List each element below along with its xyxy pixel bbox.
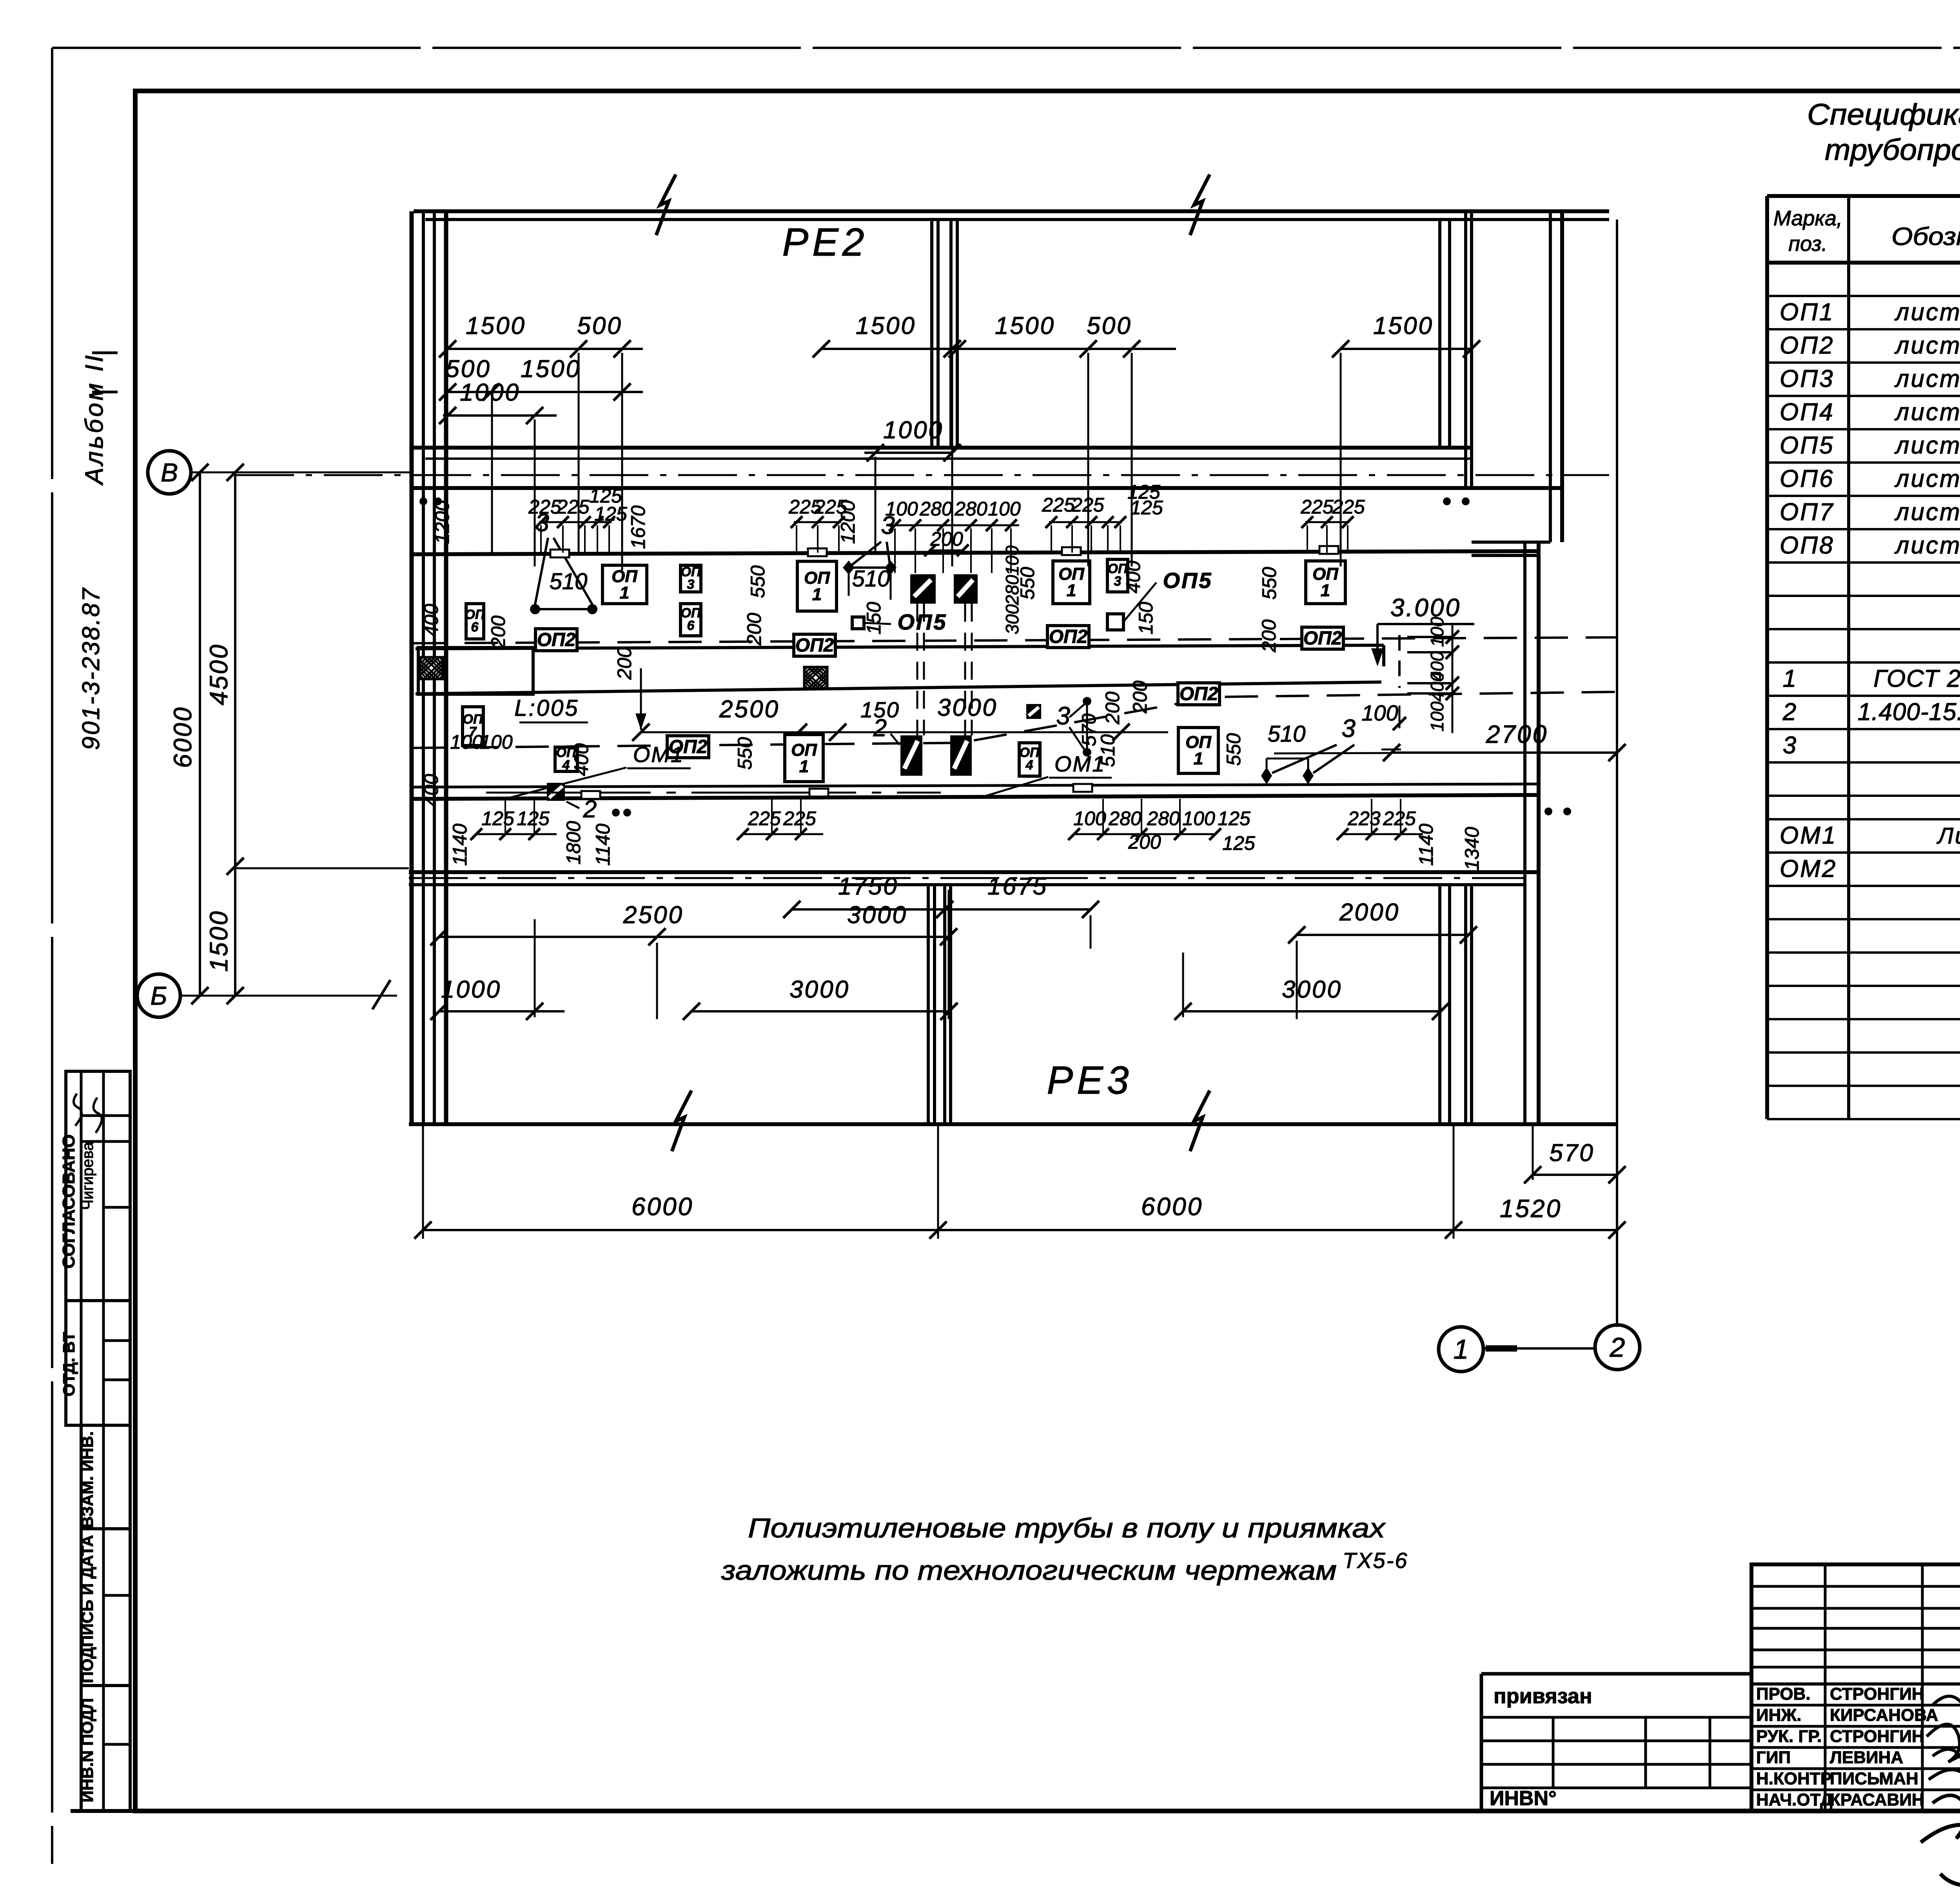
РЕ3 dim 3000 #2: [1174, 976, 1449, 1020]
svg-text:570: 570: [1078, 713, 1100, 746]
svg-text:150: 150: [863, 602, 885, 635]
svg-text:2: 2: [1782, 699, 1796, 726]
svg-text:100: 100: [1073, 807, 1106, 829]
dim 1500 middle: [813, 312, 961, 357]
centre line lower row: [486, 792, 941, 794]
svg-text:НАЧ.ОТД: НАЧ.ОТД: [1756, 1790, 1833, 1809]
svg-text:200: 200: [743, 613, 765, 646]
svg-text:3000: 3000: [937, 694, 998, 721]
dim row 1500/500 left: [439, 312, 643, 357]
svg-text:225: 225: [528, 496, 561, 518]
svg-text:КИРСАНОВА: КИРСАНОВА: [1830, 1706, 1938, 1725]
svg-text:3000: 3000: [789, 976, 850, 1003]
svg-text:1000: 1000: [441, 976, 501, 1003]
svg-text:ИНВ.N ПОДЛ: ИНВ.N ПОДЛ: [78, 1698, 96, 1802]
tank РЕ3 bottom break line: [409, 1122, 1617, 1126]
svg-text:100: 100: [1427, 617, 1447, 647]
svg-text:ГОСТ 24379.1-80: ГОСТ 24379.1-80: [1873, 665, 1960, 692]
dim 1500/500 middle-right: [949, 312, 1176, 357]
svg-text:РЕ3: РЕ3: [1047, 1058, 1132, 1102]
svg-text:Б: Б: [151, 981, 167, 1010]
ОМ1 labels: [510, 742, 1112, 798]
pipe dashed verticals between squares: [917, 604, 972, 735]
svg-text:225: 225: [1332, 496, 1365, 518]
svg-text:2000: 2000: [1339, 899, 1400, 926]
svg-text:3000: 3000: [847, 902, 907, 929]
svg-text:225: 225: [1300, 496, 1334, 518]
spec row ОП3: [1780, 365, 1960, 396]
РЕ3 dim 1000: [430, 976, 564, 1020]
tank РЕ3 right wall: [1440, 885, 1472, 1124]
channel: [416, 645, 1384, 694]
svg-text:Чигирева: Чигирева: [79, 1142, 96, 1210]
dim strip above corridor: [431, 481, 1365, 634]
svg-text:ОП2: ОП2: [537, 630, 576, 650]
axis circle 2: [1595, 1325, 1640, 1370]
tank РЕ3 middle divider: [928, 885, 951, 1124]
plan right outer walls: [1472, 211, 1562, 1124]
svg-text:125: 125: [517, 807, 550, 829]
channel left box with hatch: [418, 648, 533, 694]
support ОП3 upper #7: [1107, 559, 1128, 592]
svg-text:ПИСЬМАН: ПИСЬМАН: [1830, 1769, 1918, 1788]
dim row 1000 left: [439, 379, 557, 424]
dim 1500 right: [1332, 312, 1480, 357]
corridor top line: [414, 551, 1539, 554]
spec row ОП4: [1780, 399, 1960, 430]
svg-text:ОП2: ОП2: [795, 635, 834, 656]
far right vertical line: [1616, 220, 1618, 1327]
svg-text:570: 570: [1549, 1140, 1594, 1167]
svg-text:Н.КОНТР: Н.КОНТР: [1756, 1769, 1832, 1788]
tank РЕ2 top break wall: [414, 211, 1609, 220]
svg-text:280: 280: [1002, 575, 1022, 605]
svg-text:4: 4: [1025, 758, 1033, 773]
spec table grid: [1767, 196, 1960, 1119]
white gap rects on lines: [550, 546, 1338, 799]
svg-text:1140: 1140: [1415, 824, 1437, 866]
svg-text:400: 400: [420, 604, 442, 637]
svg-text:550: 550: [734, 737, 756, 770]
dim 570: [1524, 1124, 1626, 1183]
tank РЕ2 bottom wall: [414, 448, 1562, 488]
svg-text:ИНЖ.: ИНЖ.: [1756, 1706, 1801, 1725]
svg-text:лист КЖ 15: лист КЖ 15: [1895, 365, 1960, 392]
svg-text:2: 2: [873, 715, 887, 742]
svg-text:1500: 1500: [466, 312, 526, 339]
svg-text:РЕ2: РЕ2: [782, 220, 868, 264]
svg-text:Полиэтиленовые трубы в полу и: Полиэтиленовые трубы в полу и приямках: [748, 1513, 1386, 1543]
svg-text:225: 225: [783, 807, 816, 829]
side block СОГЛАСОВАНО: [59, 1071, 130, 1301]
title block main grid: [1751, 1564, 1960, 1811]
svg-text:лист КЖ 15: лист КЖ 15: [1895, 465, 1960, 492]
svg-text:ОП2: ОП2: [1180, 684, 1218, 704]
svg-text:400: 400: [1427, 671, 1447, 702]
svg-text:400: 400: [570, 743, 592, 776]
svg-text:ОМ1: ОМ1: [1780, 822, 1837, 849]
axis circle 1: [1439, 1327, 1483, 1372]
black square pair upper: [910, 574, 978, 604]
svg-text:1340: 1340: [1461, 827, 1483, 870]
svg-text:L:005: L:005: [514, 695, 579, 721]
support ОП4 lower #2: [555, 745, 577, 773]
svg-text:3000: 3000: [1282, 976, 1342, 1003]
svg-text:280: 280: [1108, 807, 1142, 829]
svg-text:400: 400: [420, 774, 442, 807]
svg-text:280: 280: [919, 498, 953, 520]
tank РЕ3 left wall: [412, 872, 446, 1124]
channel dims 2500 150 3000: [632, 668, 1168, 741]
spec row ОМ2: [1780, 855, 1960, 885]
svg-text:ПРОВ.: ПРОВ.: [1756, 1684, 1811, 1704]
break mark top left: [656, 174, 676, 235]
support ОП1 lower #4: [785, 735, 823, 782]
svg-text:лист КЖ 15: лист КЖ 15: [1895, 399, 1960, 426]
svg-text:1520: 1520: [1500, 1194, 1562, 1223]
svg-text:ОМ1: ОМ1: [633, 742, 684, 767]
svg-text:3: 3: [1783, 732, 1796, 759]
support ОП5 #2: [1107, 568, 1212, 630]
support ОП7 lower #1: [463, 707, 483, 746]
svg-text:ПОДПИСЬ И ДАТА: ПОДПИСЬ И ДАТА: [78, 1535, 96, 1683]
svg-text:Обозначение: Обозначение: [1891, 222, 1960, 250]
left dimension 6000: [169, 464, 209, 1004]
side block ОТД ВТ: [60, 1301, 130, 1425]
svg-text:4500: 4500: [205, 643, 233, 705]
svg-text:300: 300: [1002, 604, 1022, 634]
spec row ОП8: [1780, 532, 1960, 563]
signatures: [1921, 1694, 1960, 1886]
svg-text:1800: 1800: [563, 821, 584, 864]
svg-text:510: 510: [550, 569, 588, 594]
tank РЕ2 middle divider wall: [932, 220, 957, 448]
svg-text:1500: 1500: [205, 910, 233, 972]
svg-text:РУК. ГР.: РУК. ГР.: [1756, 1727, 1822, 1746]
svg-text:1140: 1140: [592, 824, 614, 866]
svg-text:6000: 6000: [1141, 1192, 1203, 1221]
svg-text:100: 100: [1002, 545, 1022, 575]
dim 2700: [1274, 720, 1626, 761]
person rows: [1756, 1684, 1938, 1809]
svg-text:ОП5: ОП5: [1780, 432, 1835, 459]
spec row 2: [1782, 699, 1960, 727]
510 dim with diamonds lower right: [1261, 714, 1356, 784]
hatch square 2: [804, 667, 828, 689]
svg-text:100: 100: [1182, 807, 1215, 829]
svg-text:125: 125: [1222, 832, 1255, 854]
support ОП1 lower #5: [1178, 728, 1218, 773]
svg-text:ВЗАМ. ИНВ.: ВЗАМ. ИНВ.: [78, 1431, 96, 1528]
spec row 1: [1783, 665, 1960, 694]
svg-text:1.400-15. В1. 120-05: 1.400-15. В1. 120-05: [1858, 699, 1960, 726]
dim 1000 middle: [864, 417, 961, 461]
title block left extension: [1481, 1674, 1751, 1811]
svg-text:1: 1: [1194, 749, 1203, 768]
svg-text:6: 6: [687, 618, 695, 633]
svg-text:510: 510: [852, 566, 890, 592]
svg-text:2: 2: [1610, 1332, 1625, 1363]
svg-text:1500: 1500: [995, 312, 1055, 339]
svg-text:2500: 2500: [623, 902, 684, 929]
note text: [721, 1513, 1408, 1586]
svg-text:901-3-238.87: 901-3-238.87: [78, 587, 105, 750]
corridor dashed pipe line 1: [414, 637, 1617, 643]
svg-text:510: 510: [1097, 734, 1119, 767]
small texts corridor: [450, 731, 513, 753]
support ОП6 upper #4: [681, 604, 701, 636]
svg-text:225: 225: [1383, 807, 1416, 829]
axis circle В: [148, 451, 414, 494]
svg-text:лист КЖ 15: лист КЖ 15: [1895, 299, 1960, 326]
svg-text:ОП3: ОП3: [1780, 365, 1835, 392]
svg-text:3: 3: [1341, 714, 1356, 742]
lower strip extension verticals: [505, 799, 1401, 834]
svg-text:1500: 1500: [1373, 312, 1434, 339]
support ОП2 #6: [1178, 683, 1220, 705]
break marks РЕ3: [672, 1091, 691, 1151]
svg-text:ОТД. ВТ: ОТД. ВТ: [60, 1332, 78, 1396]
svg-text:ОМ2: ОМ2: [1780, 855, 1837, 882]
svg-text:ТХ5-6: ТХ5-6: [1343, 1548, 1408, 1573]
spec row ОП5: [1780, 432, 1960, 463]
support ОП1 upper #8: [1306, 561, 1345, 604]
support ОП2 #2: [794, 634, 835, 656]
svg-text:лист КЖ 15: лист КЖ 15: [1895, 499, 1960, 526]
support ОП6 upper #3: [465, 604, 485, 639]
svg-text:1200: 1200: [431, 500, 453, 544]
svg-text:3.000: 3.000: [1390, 593, 1461, 622]
svg-text:3: 3: [687, 577, 695, 592]
support ОП2 #5: [667, 736, 709, 758]
svg-text:225: 225: [1042, 494, 1075, 516]
svg-text:ГИП: ГИП: [1756, 1748, 1791, 1767]
svg-text:ОП6: ОП6: [1780, 465, 1835, 492]
svg-text:225: 225: [748, 807, 781, 829]
svg-text:ОП5: ОП5: [898, 610, 947, 634]
svg-text:1000: 1000: [460, 379, 520, 406]
tank РЕ3 top wall: [409, 872, 1539, 885]
svg-text:1140: 1140: [449, 824, 471, 866]
spec row ОП6: [1780, 465, 1960, 496]
svg-text:3: 3: [1056, 702, 1070, 730]
svg-text:В: В: [161, 458, 178, 487]
support ОП3 upper #2: [681, 564, 701, 592]
svg-text:1500: 1500: [856, 312, 916, 339]
corridor bottom lines: [414, 784, 1539, 787]
channel slope text L=005: [514, 695, 588, 722]
svg-text:6: 6: [471, 620, 479, 635]
svg-text:6000: 6000: [169, 706, 197, 768]
svg-text:заложить по технологическим че: заложить по технологическим чертежам: [721, 1555, 1337, 1586]
axis В dash-dot: [235, 474, 1609, 476]
support ОП5 #1: [852, 610, 947, 634]
svg-text:поз.: поз.: [1788, 232, 1827, 256]
svg-text:500: 500: [1087, 312, 1132, 339]
РЕ3 dim 3000 #1: [683, 976, 958, 1020]
100 dim right: [1361, 700, 1406, 749]
spec row ОП2: [1780, 332, 1960, 363]
svg-text:550: 550: [1223, 733, 1245, 766]
svg-text:1670: 1670: [627, 505, 649, 549]
svg-text:ЛЕВИНА: ЛЕВИНА: [1830, 1748, 1903, 1767]
svg-text:лист КЖ 15: лист КЖ 15: [1895, 532, 1960, 559]
svg-text:100: 100: [885, 498, 918, 520]
pipe stubs right of channel: [1407, 617, 1459, 733]
РЕ3 dim 2000: [1288, 899, 1477, 944]
svg-text:Альбом II: Альбом II: [80, 353, 108, 486]
svg-text:280: 280: [1147, 807, 1180, 829]
svg-text:200: 200: [613, 647, 635, 680]
spec table header text: [1773, 207, 1960, 259]
left dimension 4500 / 1500: [205, 464, 409, 1004]
svg-text:200: 200: [487, 615, 509, 649]
support ОП2 #1: [535, 629, 577, 651]
svg-text:СОГЛАСОВАНО: СОГЛАСОВАНО: [59, 1134, 78, 1269]
rotated dims corridor: [420, 561, 1280, 807]
svg-text:100: 100: [988, 498, 1021, 520]
svg-text:280: 280: [954, 498, 987, 520]
svg-text:3: 3: [1114, 574, 1122, 589]
svg-text:ОП7: ОП7: [1780, 499, 1835, 526]
black square pair lower: [900, 735, 972, 776]
bottom dim 6000/6000/1520: [414, 1124, 1626, 1239]
510 dim with dots upper: [530, 508, 597, 614]
spec row ОМ1: [1780, 822, 1960, 852]
svg-text:лист КЖ 15: лист КЖ 15: [1895, 432, 1960, 459]
svg-text:Спецификация к схемам располож: Спецификация к схемам расположения опор …: [1807, 98, 1960, 131]
svg-text:2500: 2500: [719, 696, 780, 723]
svg-text:лист КЖ 15: лист КЖ 15: [1895, 332, 1960, 359]
small embedded squares with 2 leaders: [547, 704, 1041, 823]
svg-text:Лист КЖ15: Лист КЖ15: [1936, 823, 1960, 849]
spec table title: [1807, 98, 1960, 167]
РЕ3 interior verticals: [535, 890, 1297, 1019]
svg-text:550: 550: [1258, 567, 1280, 600]
svg-text:510: 510: [1268, 721, 1306, 747]
svg-text:4: 4: [562, 758, 570, 773]
mark 3.000 with arrow: [1371, 593, 1474, 688]
tank РЕ2 left wall / corridor left wall: [412, 211, 446, 872]
svg-text:ОП2: ОП2: [1780, 332, 1835, 359]
svg-text:ОП5: ОП5: [1163, 568, 1213, 593]
svg-text:СТРОНГИН: СТРОНГИН: [1830, 1727, 1924, 1746]
svg-text:2700: 2700: [1486, 720, 1548, 748]
svg-text:1750: 1750: [838, 873, 898, 900]
svg-text:ОП2: ОП2: [1303, 628, 1342, 649]
svg-text:225: 225: [1071, 494, 1104, 516]
svg-text:125: 125: [481, 807, 514, 829]
svg-text:1675: 1675: [987, 873, 1048, 900]
svg-text:500: 500: [577, 312, 622, 339]
svg-text:1: 1: [1454, 1334, 1469, 1365]
spec row ОП7: [1780, 499, 1960, 530]
svg-text:привязан: привязан: [1494, 1684, 1592, 1708]
spec row ОП1: [1780, 299, 1960, 330]
svg-text:КРАСАВИН: КРАСАВИН: [1830, 1790, 1924, 1809]
svg-text:1500: 1500: [521, 356, 581, 383]
support ОП1 upper #6: [1053, 561, 1090, 604]
dim row 500/1500 left: [439, 356, 643, 401]
support ОП1 upper #1: [603, 565, 647, 604]
svg-text:500: 500: [446, 356, 491, 383]
svg-text:1: 1: [1067, 581, 1076, 600]
svg-text:100: 100: [450, 731, 483, 753]
spec row 3: [1783, 732, 1960, 760]
svg-text:125: 125: [1218, 807, 1250, 829]
svg-text:225: 225: [556, 496, 590, 518]
svg-text:1: 1: [799, 757, 809, 776]
label Альбом II: [80, 353, 118, 486]
dim extension verticals РЕ2: [492, 353, 1341, 570]
corridor dashed pipe line 2: [414, 692, 1617, 748]
svg-text:1: 1: [1321, 581, 1330, 600]
svg-text:ОП2: ОП2: [1049, 626, 1088, 647]
svg-text:100: 100: [1427, 701, 1447, 731]
support ОП1 upper #5: [797, 561, 837, 611]
РЕ3 dim 2500/3000: [430, 902, 957, 945]
axis circle Б: [137, 974, 397, 1017]
svg-text:трубопроводы и закладных детал: трубопроводы и закладных деталей: [1825, 133, 1960, 167]
svg-text:1000: 1000: [883, 417, 944, 444]
svg-text:ОП4: ОП4: [1780, 399, 1835, 426]
svg-text:400: 400: [1122, 561, 1144, 593]
svg-text:150: 150: [1135, 602, 1157, 635]
510 dim with diamonds upper #2: [843, 511, 897, 600]
svg-text:223: 223: [1347, 807, 1381, 829]
svg-text:200: 200: [1258, 619, 1280, 653]
svg-text:100: 100: [480, 731, 513, 753]
svg-text:СТРОНГИН: СТРОНГИН: [1830, 1684, 1924, 1704]
svg-text:200: 200: [1102, 691, 1123, 725]
svg-text:100: 100: [1361, 700, 1398, 725]
line between circles 1 and 2: [1483, 1347, 1595, 1350]
3 label with dots lower left: [1056, 697, 1119, 767]
dots pairs: [419, 497, 1571, 817]
svg-text:Марка,: Марка,: [1773, 207, 1842, 230]
support ОП2 #3: [1047, 626, 1089, 648]
support ОП4 lower #3: [1019, 743, 1040, 776]
svg-text:6000: 6000: [632, 1192, 693, 1221]
svg-text:200: 200: [1129, 680, 1151, 714]
axis dash-dot РЕ3 top: [409, 877, 1525, 879]
dim strip below corridor: [449, 807, 1483, 871]
svg-text:ОП8: ОП8: [1780, 532, 1835, 559]
svg-text:1: 1: [1783, 665, 1796, 692]
РЕ3 dim 1750/1675: [783, 873, 1099, 918]
break mark top right: [1190, 174, 1210, 235]
side block ВЗАМ ИНВ / ПОДПИСЬ И ДАТА / ИНВ N ПОДЛ: [78, 1425, 130, 1811]
svg-text:125: 125: [1130, 497, 1163, 519]
svg-text:550: 550: [747, 565, 769, 598]
svg-text:ОП1: ОП1: [1780, 299, 1835, 326]
svg-text:1: 1: [812, 585, 822, 604]
tank РЕ2 right wall: [1440, 211, 1472, 488]
svg-text:1: 1: [620, 583, 629, 602]
support ОП2 #4: [1302, 627, 1343, 649]
svg-text:ИНВN°: ИНВN°: [1490, 1787, 1557, 1810]
